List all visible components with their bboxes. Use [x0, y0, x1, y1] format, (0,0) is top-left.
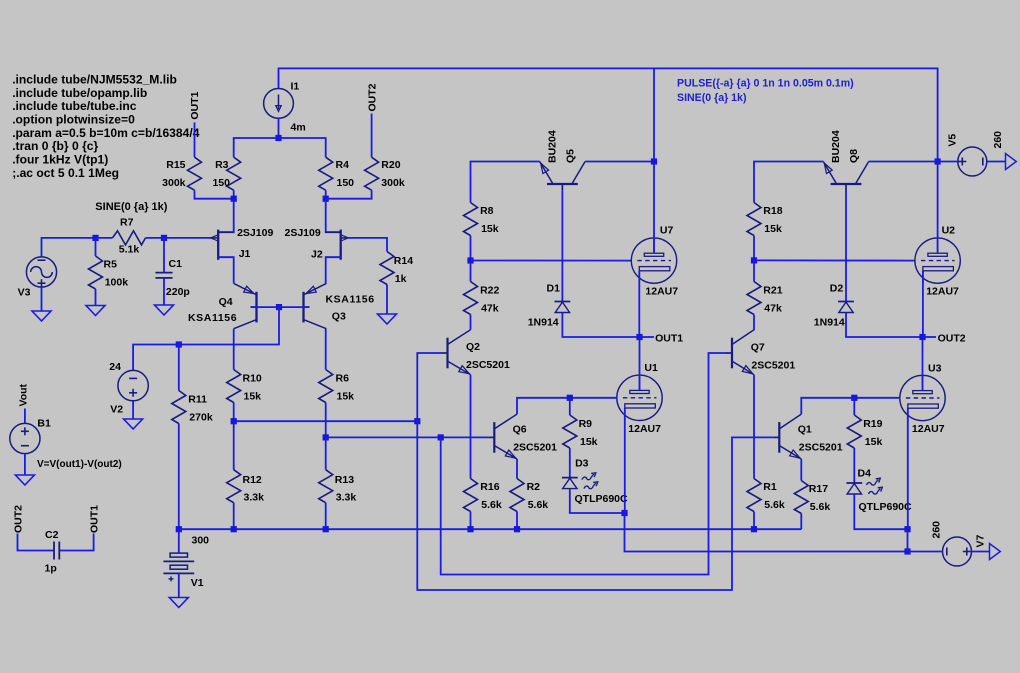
junction	[467, 526, 473, 532]
svg-text:V=V(out1)-V(out2): V=V(out1)-V(out2)	[37, 459, 122, 470]
svg-text:R15: R15	[166, 159, 185, 171]
svg-text:Q1: Q1	[798, 423, 812, 435]
svg-text:Q7: Q7	[751, 341, 765, 353]
svg-text:1p: 1p	[45, 563, 57, 575]
wire R7 right lead	[146, 237, 165, 239]
junction	[176, 526, 182, 532]
junction	[851, 395, 857, 401]
resistor R7	[113, 231, 146, 245]
ground	[169, 598, 188, 608]
wire V5 to junction	[938, 161, 958, 163]
wire R20 bottom	[326, 190, 372, 199]
svg-text:OUT2: OUT2	[13, 505, 25, 533]
svg-text:1N914: 1N914	[814, 316, 845, 328]
resistor R6	[319, 370, 333, 438]
svg-text:12AU7: 12AU7	[628, 423, 661, 435]
resistor R16	[464, 479, 478, 530]
wire R4 bottom	[325, 190, 327, 199]
wire I1 bottom	[278, 118, 280, 138]
svg-text:1N914: 1N914	[528, 316, 559, 328]
transistor Q1	[773, 414, 801, 459]
wire OUT2 flag to R20	[371, 114, 373, 158]
svg-text:B1: B1	[37, 418, 51, 430]
junction	[636, 334, 642, 340]
wire Q1 emitter to R17	[800, 459, 802, 481]
svg-text:R3: R3	[215, 159, 229, 171]
wire V1 top lead	[178, 529, 180, 553]
wire R15 bottom	[195, 190, 234, 199]
wire Q3 collector to R6	[325, 329, 327, 370]
svg-text:.option plotwinsize=0: .option plotwinsize=0	[12, 113, 135, 127]
svg-text:V2: V2	[110, 404, 123, 416]
wire V3 top to input node	[42, 238, 96, 257]
wire Q5 collector to rail column	[585, 161, 654, 163]
svg-text:Q6: Q6	[513, 423, 527, 435]
wire J2 source	[326, 257, 341, 283]
resistor R8	[464, 203, 478, 236]
svg-text:V7: V7	[974, 534, 986, 547]
wire input to J1 gate	[164, 237, 212, 239]
svg-text:3.3k: 3.3k	[336, 492, 357, 504]
resistor R21	[747, 260, 761, 314]
wire bus R6-node to Q6 base	[326, 436, 489, 438]
junction	[438, 434, 444, 440]
wire R22 bottom to Q2 collector	[470, 315, 472, 330]
wire C1 top lead	[163, 238, 165, 273]
junction	[567, 395, 573, 401]
wire OUT2 stub	[923, 336, 937, 338]
junction	[467, 257, 473, 263]
junction	[414, 418, 420, 424]
wire OUT1 to U1 plate	[639, 337, 641, 390]
junction	[231, 196, 237, 202]
wire R19 to D4	[853, 448, 855, 483]
svg-text:OUT1: OUT1	[89, 505, 101, 533]
svg-text:U2: U2	[942, 225, 956, 237]
svg-text:Q3: Q3	[332, 311, 346, 323]
svg-text:3.3k: 3.3k	[244, 492, 265, 504]
svg-text:R4: R4	[336, 159, 350, 171]
svg-text:Q8: Q8	[848, 149, 860, 163]
wire Q5 base to D1	[561, 190, 563, 302]
wire Q2 base riser	[417, 353, 441, 421]
wire U2 grid wire	[754, 259, 915, 261]
wire V5 output lead	[987, 161, 1006, 163]
svg-text:2SJ109: 2SJ109	[237, 227, 273, 239]
resistor R22	[464, 261, 478, 315]
svg-text:15k: 15k	[580, 436, 598, 448]
svg-text:100k: 100k	[105, 277, 129, 289]
transistor Q8	[823, 162, 868, 191]
svg-text:.four 1kHz V(tp1): .four 1kHz V(tp1)	[12, 153, 108, 167]
svg-text:15k: 15k	[244, 391, 262, 403]
junction	[323, 196, 329, 202]
resistor R15	[188, 157, 202, 190]
svg-text:47k: 47k	[481, 303, 499, 315]
svg-text:R10: R10	[243, 373, 262, 385]
resistor R4	[319, 157, 333, 190]
wire J2 gate to R14	[347, 238, 387, 252]
wire R21 bottom to Q7 collector	[753, 315, 755, 331]
svg-text:J2: J2	[311, 249, 323, 261]
wire V3 bottom lead	[41, 287, 43, 311]
wire C1 bottom lead	[163, 278, 165, 305]
port arrow	[1006, 154, 1017, 170]
svg-text:SINE(0 {a} 1k): SINE(0 {a} 1k)	[677, 92, 746, 104]
wire OUT2 to U3 plate	[922, 337, 924, 391]
wire cross-couple R10node to Q1 base	[417, 421, 773, 590]
wire Q7 emitter to R1	[753, 375, 755, 479]
wire U1 cathode down	[624, 408, 626, 513]
resistor R14	[380, 252, 394, 315]
junction	[935, 158, 941, 164]
svg-text:5.6k: 5.6k	[810, 501, 831, 513]
transistor Q5	[540, 162, 585, 191]
ground	[15, 475, 34, 485]
wire R8 top to Q5 emitter	[471, 162, 540, 203]
wire D2 to OUT2 node	[846, 313, 923, 337]
wire base node to V2 row	[133, 307, 279, 370]
wire J1 drain	[218, 199, 234, 233]
ground	[124, 419, 143, 429]
transistor Q4	[234, 283, 257, 328]
wire Q8 collector to V5 column	[869, 161, 938, 163]
transistor Q2	[442, 330, 471, 375]
junction	[904, 548, 910, 554]
svg-text:5.6k: 5.6k	[528, 499, 549, 511]
svg-text:2SJ109: 2SJ109	[285, 227, 321, 239]
wire V7 output lead	[972, 551, 990, 553]
wire Q6 emitter to R2	[516, 459, 518, 479]
svg-text:15k: 15k	[481, 223, 499, 235]
diode D2	[838, 302, 854, 313]
triode U2	[915, 238, 960, 283]
wire Q1 collector to U3 grid wire	[801, 398, 900, 414]
svg-text:OUT1: OUT1	[189, 91, 201, 119]
svg-text:260: 260	[992, 131, 1004, 149]
resistor R1	[747, 479, 761, 530]
svg-text:R12: R12	[243, 474, 262, 486]
svg-text:SINE(0 {a} 1k): SINE(0 {a} 1k)	[95, 201, 167, 213]
svg-text:.include tube/tube.inc: .include tube/tube.inc	[12, 99, 137, 113]
svg-text:QTLP690C: QTLP690C	[859, 501, 913, 513]
svg-text:U3: U3	[928, 363, 942, 375]
svg-text:.tran 0 {b} 0 {c}: .tran 0 {b} 0 {c}	[12, 139, 98, 153]
junction	[161, 235, 167, 241]
resistor R19	[847, 398, 861, 448]
ground	[378, 314, 397, 324]
svg-text:;.ac oct 5 0.1 1Meg: ;.ac oct 5 0.1 1Meg	[12, 166, 119, 180]
JFET J1	[211, 230, 234, 260]
svg-text:R14: R14	[394, 255, 413, 267]
svg-text:1k: 1k	[395, 273, 407, 285]
wire D3 to U1 cathode	[570, 489, 625, 513]
svg-text:24: 24	[109, 361, 121, 373]
transistor Q3	[304, 283, 327, 328]
svg-text:BU204: BU204	[546, 130, 558, 163]
junction	[276, 304, 282, 310]
svg-text:R5: R5	[104, 259, 118, 271]
svg-text:.include tube/opamp.lib: .include tube/opamp.lib	[12, 86, 147, 100]
svg-text:R19: R19	[863, 418, 882, 430]
wire R3-R4 header	[234, 138, 326, 157]
junction	[751, 526, 757, 532]
wire V5 column to U2 plate	[937, 162, 939, 254]
wire J1 source	[218, 257, 234, 283]
svg-text:I1: I1	[291, 81, 300, 93]
svg-text:2SC5201: 2SC5201	[751, 359, 795, 371]
wire R3 bottom	[233, 190, 235, 199]
svg-text:.include tube/NJM5532_M.lib: .include tube/NJM5532_M.lib	[12, 73, 177, 87]
wire cross-couple R6node to Q7 base	[441, 353, 727, 575]
junction	[323, 526, 329, 532]
wire bus R10-node to Q2 base column	[234, 420, 418, 422]
svg-text:V3: V3	[18, 287, 31, 299]
junction	[275, 135, 281, 141]
svg-text:R21: R21	[763, 285, 782, 297]
svg-text:2SC5201: 2SC5201	[799, 442, 843, 454]
capacitor C2	[54, 542, 59, 560]
wire OUT1 stub	[640, 336, 655, 338]
svg-text:U1: U1	[644, 362, 658, 374]
svg-text:BU204: BU204	[830, 130, 842, 163]
voltage source B1	[10, 423, 40, 453]
resistor R12	[227, 421, 241, 529]
svg-text:R6: R6	[336, 373, 350, 385]
svg-text:C2: C2	[45, 529, 59, 541]
junction	[323, 434, 329, 440]
wire U2 cathode to OUT2	[922, 271, 924, 337]
ground	[86, 306, 105, 316]
junction	[621, 510, 627, 516]
wire U3 cathode to bus2	[907, 529, 909, 551]
wire C2 to OUT1	[59, 534, 93, 551]
svg-text:R16: R16	[480, 481, 499, 493]
wire Q2 emitter to R16	[470, 375, 472, 479]
wire R18 bottom	[753, 236, 755, 261]
resistor R18	[747, 203, 761, 236]
wire OUT2 to C2	[18, 534, 55, 551]
LED D4	[846, 478, 882, 494]
junction	[919, 334, 925, 340]
resistor R10	[227, 370, 241, 422]
junction	[92, 235, 98, 241]
junction	[231, 526, 237, 532]
wire Q8 base to D2	[845, 190, 847, 302]
svg-text:D1: D1	[547, 282, 561, 294]
svg-text:15k: 15k	[337, 391, 355, 403]
resistor R17	[794, 481, 808, 530]
svg-text:Q4: Q4	[219, 296, 233, 308]
svg-text:12AU7: 12AU7	[912, 423, 945, 435]
svg-text:C1: C1	[169, 258, 183, 270]
wire Q4-Q3 base node	[251, 306, 310, 308]
svg-text:R22: R22	[480, 285, 499, 297]
wire R8 bottom	[470, 236, 472, 261]
svg-text:4m: 4m	[291, 122, 306, 134]
wire I1 top + top rail to V5 column	[279, 68, 938, 161]
ground	[32, 311, 51, 321]
svg-text:D4: D4	[858, 468, 872, 480]
svg-text:12AU7: 12AU7	[645, 286, 678, 298]
transistor Q7	[726, 330, 754, 375]
svg-text:5.6k: 5.6k	[764, 499, 785, 511]
svg-text:5.6k: 5.6k	[481, 499, 502, 511]
svg-text:5.1k: 5.1k	[119, 244, 140, 256]
wire R18 top to Q8 emitter	[754, 162, 823, 203]
triode U1	[617, 375, 662, 420]
svg-text:2SC5201: 2SC5201	[513, 442, 557, 454]
svg-text:D3: D3	[575, 458, 589, 470]
resistor R13	[319, 437, 333, 529]
svg-text:U7: U7	[660, 225, 674, 237]
battery V1	[163, 553, 194, 581]
svg-text:R8: R8	[480, 205, 494, 217]
voltage source V7	[943, 537, 972, 566]
junction	[904, 526, 910, 532]
LED D3	[562, 473, 598, 489]
wire R9 to D3	[569, 448, 571, 478]
wire V2 bottom	[132, 401, 134, 419]
svg-text:V1: V1	[191, 577, 204, 589]
svg-text:12AU7: 12AU7	[926, 286, 959, 298]
svg-text:R9: R9	[579, 418, 593, 430]
junction	[651, 158, 657, 164]
svg-text:150: 150	[212, 177, 230, 189]
svg-text:R1: R1	[763, 481, 777, 493]
voltage source V2	[118, 370, 148, 400]
resistor R9	[563, 398, 577, 448]
wire Q4 collector to R10	[233, 329, 235, 370]
svg-text:QTLP690C: QTLP690C	[575, 493, 629, 505]
junction	[751, 257, 757, 263]
svg-text:R17: R17	[809, 483, 828, 495]
capacitor C1	[155, 273, 172, 278]
svg-text:300: 300	[192, 535, 210, 547]
svg-text:47k: 47k	[764, 303, 782, 315]
JFET J2	[325, 230, 348, 260]
triode U3	[900, 375, 945, 420]
wire B1 bottom	[24, 454, 26, 475]
wire U7 grid wire	[471, 260, 632, 262]
svg-text:OUT2: OUT2	[367, 83, 379, 111]
wire rail to U7 plate	[653, 68, 655, 253]
svg-text:R13: R13	[335, 474, 354, 486]
svg-text:OUT2: OUT2	[938, 332, 966, 344]
current source I1	[264, 89, 294, 119]
voltage source V5	[958, 147, 987, 176]
voltage source V3	[26, 257, 56, 287]
svg-text:D2: D2	[830, 282, 844, 294]
svg-text:J1: J1	[239, 248, 251, 260]
svg-text:R11: R11	[188, 394, 207, 406]
ground	[155, 305, 174, 315]
svg-text:Q2: Q2	[466, 341, 480, 353]
svg-text:2SC5201: 2SC5201	[466, 359, 510, 371]
wire J2 drain	[326, 199, 341, 233]
wire U1 cathode to bus2	[625, 513, 908, 552]
svg-text:300k: 300k	[381, 177, 405, 189]
resistor R20	[365, 157, 379, 190]
resistor R5	[89, 238, 103, 306]
wire R7 left lead	[96, 237, 113, 239]
junction	[514, 526, 520, 532]
diode D1	[555, 302, 571, 313]
wire Q6 collector to grid wire	[517, 398, 617, 414]
junction	[231, 418, 237, 424]
wire U7 cathode to OUT1	[638, 271, 640, 337]
wire D4 to U3 cathode	[854, 494, 907, 529]
svg-text:V5: V5	[947, 134, 959, 147]
svg-text:R20: R20	[381, 159, 400, 171]
transistor Q6	[488, 414, 517, 459]
svg-text:PULSE({-a} {a} 0 1n 1n 0.05m 0: PULSE({-a} {a} 0 1n 1n 0.05m 0.1m)	[677, 78, 854, 90]
wire OUT1 flag to R15	[194, 122, 196, 157]
svg-text:150: 150	[337, 177, 355, 189]
triode U7	[631, 238, 676, 283]
svg-text:15k: 15k	[764, 223, 782, 235]
resistor R11	[172, 345, 186, 530]
junction	[176, 341, 182, 347]
resistor R3	[227, 157, 241, 190]
svg-text:OUT1: OUT1	[655, 332, 683, 344]
svg-text:.param a=0.5 b=10m c=b/16384/4: .param a=0.5 b=10m c=b/16384/4	[12, 126, 200, 140]
svg-text:220p: 220p	[166, 286, 190, 298]
svg-text:KSA1156: KSA1156	[326, 294, 375, 306]
svg-text:R2: R2	[527, 481, 541, 493]
wire D1 to OUT1 node	[562, 313, 639, 337]
wire ground bus	[179, 528, 802, 530]
wire U3 cathode down	[907, 408, 909, 529]
svg-text:R18: R18	[763, 205, 782, 217]
wire V1 bottom lead	[178, 573, 180, 597]
svg-text:KSA1156: KSA1156	[188, 312, 237, 324]
svg-text:R7: R7	[120, 217, 134, 229]
wire bus2 to V7	[908, 551, 943, 553]
svg-text:15k: 15k	[865, 436, 883, 448]
svg-text:300k: 300k	[162, 177, 186, 189]
svg-text:Vout: Vout	[18, 383, 30, 406]
svg-text:260: 260	[931, 521, 943, 539]
resistor R2	[510, 479, 524, 530]
port arrow	[990, 544, 1001, 560]
svg-text:Q5: Q5	[564, 149, 576, 163]
svg-text:270k: 270k	[189, 412, 213, 424]
wire Vout flag to B1	[24, 409, 26, 424]
